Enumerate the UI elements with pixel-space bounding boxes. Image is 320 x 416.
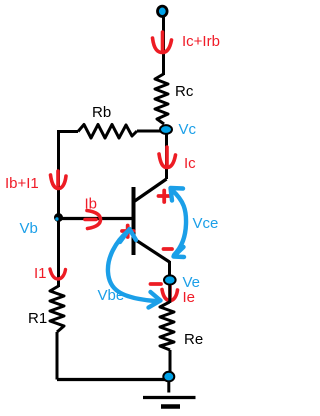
current arrow Ib+I1	[51, 171, 67, 189]
svg-text:Vce: Vce	[193, 215, 219, 232]
svg-text:Re: Re	[184, 331, 203, 348]
wire to Re	[168, 284, 171, 303]
svg-text:I1: I1	[34, 265, 47, 282]
svg-text:R1: R1	[28, 310, 47, 327]
plus sign collector	[159, 191, 171, 203]
node Vb	[54, 213, 63, 222]
svg-text:Vc: Vc	[179, 121, 197, 138]
svg-text:Ic: Ic	[184, 155, 196, 172]
wire collector	[165, 133, 168, 179]
terminal Vcc	[158, 6, 168, 16]
svg-text:Vb: Vb	[20, 220, 38, 237]
svg-text:Rc: Rc	[175, 83, 194, 100]
wire to ground	[167, 381, 170, 393]
Vbe arc	[108, 229, 161, 308]
bottom wire	[57, 378, 166, 381]
resistor R1	[50, 286, 64, 332]
transistor Q1 emitter lead	[134, 239, 170, 263]
node Ve	[164, 275, 176, 284]
wire	[169, 350, 172, 372]
base wire	[59, 217, 134, 220]
left vertical wire	[57, 130, 60, 287]
current arrow Ic+Irb	[153, 32, 172, 53]
minus sign Ve	[151, 282, 162, 286]
svg-text:Ib+I1: Ib+I1	[5, 175, 39, 192]
wire	[137, 130, 161, 133]
node Vc	[160, 125, 172, 134]
transistor Q1 collector lead	[134, 179, 167, 202]
svg-text:Vbe: Vbe	[98, 287, 125, 304]
transistor Q1 base bar	[132, 187, 136, 255]
ground	[143, 396, 196, 399]
current arrow Ie	[162, 286, 178, 301]
resistor Re	[160, 302, 174, 350]
emitter wire	[168, 261, 171, 276]
svg-text:Rb: Rb	[92, 104, 111, 121]
wire	[162, 16, 165, 75]
minus sign emitter	[164, 247, 173, 251]
plus sign base	[122, 226, 134, 238]
svg-text:Ic+Irb: Ic+Irb	[182, 33, 220, 50]
Vce arc	[171, 188, 187, 257]
svg-text:Ib: Ib	[85, 196, 98, 213]
node ground junction	[163, 372, 174, 382]
wire Rb horizontal	[57, 130, 78, 133]
resistor Rc	[155, 74, 168, 124]
resistor Rb	[78, 125, 137, 139]
current arrow I1	[50, 269, 66, 279]
svg-text:Ie: Ie	[183, 289, 196, 306]
current arrow Ic	[159, 147, 176, 168]
current arrow Ib	[85, 211, 101, 229]
wire	[56, 332, 59, 380]
